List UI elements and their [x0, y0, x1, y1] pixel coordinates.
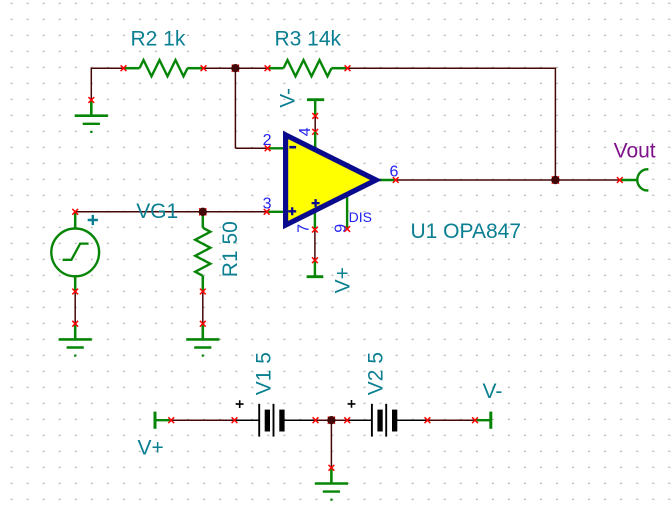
- svg-text:4: 4: [297, 127, 314, 136]
- svg-text:R1 50: R1 50: [219, 221, 242, 277]
- svg-text:9: 9: [332, 224, 349, 233]
- svg-text:V+: V+: [138, 437, 164, 460]
- svg-text:2: 2: [263, 132, 272, 149]
- svg-text:6: 6: [390, 163, 399, 180]
- svg-text:V-: V-: [483, 380, 503, 403]
- svg-text:V+: V+: [332, 267, 355, 293]
- svg-text:U1 OPA847: U1 OPA847: [411, 220, 522, 243]
- svg-text:R2 1k: R2 1k: [131, 27, 186, 50]
- svg-text:V2 5: V2 5: [365, 352, 388, 395]
- svg-text:DIS: DIS: [349, 209, 372, 225]
- svg-text:R3 14k: R3 14k: [275, 27, 342, 50]
- svg-text:VG1: VG1: [136, 200, 178, 223]
- svg-text:3: 3: [263, 195, 272, 212]
- svg-text:7: 7: [296, 224, 313, 233]
- svg-text:V1 5: V1 5: [252, 352, 275, 395]
- svg-text:V-: V-: [277, 88, 300, 108]
- svg-text:Vout: Vout: [614, 140, 656, 163]
